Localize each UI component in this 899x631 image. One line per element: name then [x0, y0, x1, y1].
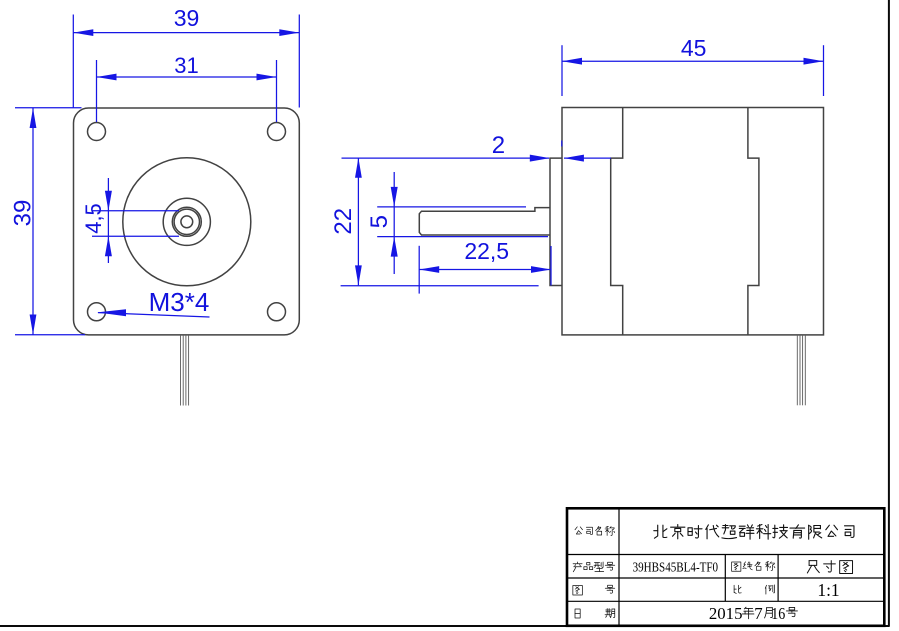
dim 39 top: extension lines — [72, 15, 74, 108]
dim 22,5: dimension line — [419, 269, 551, 271]
dim 31: dimension line — [97, 76, 277, 78]
dim 22: dimension line — [357, 158, 359, 286]
page frame right border — [888, 0, 890, 627]
svg-text:22: 22 — [330, 208, 357, 235]
dim 31: extension lines — [96, 60, 98, 122]
label scale (比 例) — [734, 585, 774, 594]
label company-name (公司名称) — [575, 526, 615, 535]
pilot boss front face — [550, 158, 562, 285]
company name value (北京时代超群科技有限公司) — [654, 525, 854, 540]
mounting hole bottom-left — [88, 303, 106, 321]
dim 2: right tail with arrow — [564, 157, 611, 159]
mounting hole bottom-right — [268, 303, 286, 321]
dim 22: bottom extension line — [341, 285, 539, 287]
svg-text:2: 2 — [492, 132, 505, 159]
shaft circle — [181, 216, 193, 228]
motor body side view — [562, 108, 824, 335]
dim 39 top: dimension line — [73, 32, 299, 34]
motor front face outline — [74, 108, 300, 335]
dim 2: extension tick — [561, 141, 563, 147]
lead wires front view — [180, 335, 182, 406]
pilot circle — [163, 198, 210, 245]
svg-text:31: 31 — [174, 53, 198, 78]
column line mid — [724, 555, 726, 602]
svg-text:39: 39 — [10, 200, 37, 227]
dim 45: extension lines — [561, 45, 563, 96]
svg-text:2015: 2015 — [709, 604, 743, 623]
M3*4 leader line — [98, 313, 210, 317]
shaft outline with collar and chamfer — [419, 208, 550, 235]
svg-text:5: 5 — [366, 215, 393, 228]
dim 4,5: extension lines — [92, 210, 179, 212]
dim 39 left: extension lines — [15, 107, 82, 109]
dim 2: dimension line left part (also 22 top extension) — [342, 157, 550, 159]
mounting hole top-left — [88, 123, 106, 141]
drawing name value (尺寸图) — [807, 561, 852, 574]
row line 1 — [567, 554, 884, 556]
rear end-cap boundary with notch — [748, 108, 759, 335]
dim 4,5: dimension line with outside arrows — [107, 178, 109, 263]
bearing ring inner — [174, 209, 199, 234]
bearing ring outer — [172, 207, 201, 236]
raised boss circle (22mm) — [123, 158, 251, 286]
label date (日 期) — [575, 609, 615, 619]
column line label — [618, 508, 620, 626]
svg-text:39: 39 — [174, 5, 200, 31]
svg-text:39HBS45BL4-TF0: 39HBS45BL4-TF0 — [633, 560, 719, 575]
svg-text:4,5: 4,5 — [81, 203, 106, 234]
label product-model (产品型号) — [573, 562, 615, 572]
label drawing-number (图 号) — [573, 585, 615, 595]
svg-text:22,5: 22,5 — [464, 238, 509, 264]
dim 5: dimension line with outside arrows — [393, 172, 395, 274]
label drawing-name (图纸名称) — [732, 562, 775, 572]
svg-text:45: 45 — [681, 35, 707, 61]
column line right — [777, 555, 779, 602]
mounting hole top-right — [268, 123, 286, 141]
dim 5: extension lines — [377, 206, 526, 208]
title block outer border — [567, 508, 884, 626]
svg-text:M3*4: M3*4 — [149, 287, 210, 317]
row line 3 — [567, 600, 884, 602]
lead wires side view — [796, 335, 798, 405]
dim 45: dimension line — [562, 60, 824, 62]
dim 22,5: extension lines — [418, 246, 420, 294]
svg-text:1:1: 1:1 — [817, 580, 839, 600]
svg-text:16: 16 — [771, 604, 785, 623]
front end-cap boundary with notch — [611, 108, 623, 335]
page frame bottom border — [0, 625, 890, 627]
dim 39 left: dimension line — [32, 108, 34, 335]
svg-text:7: 7 — [754, 604, 762, 623]
row line 2 — [567, 577, 884, 579]
